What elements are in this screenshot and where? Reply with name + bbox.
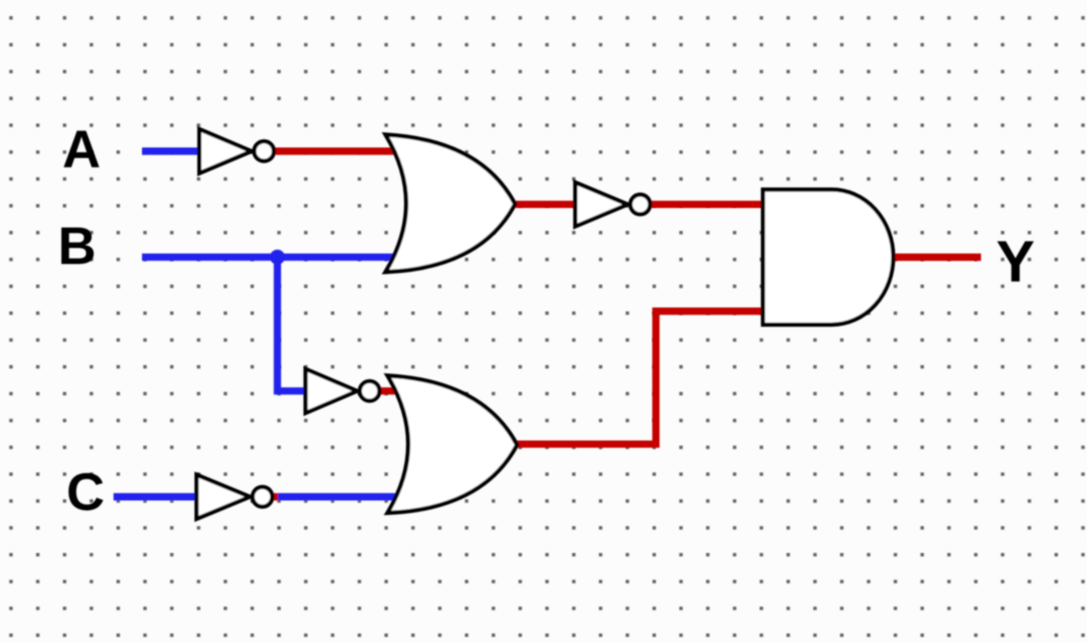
wire: NOT1 output to OR1 (red, high) [270,148,399,155]
svg-text:B: B [58,217,96,276]
and-gate U1 [763,190,893,325]
inverter NOT2 (after OR1) [575,182,650,226]
wire: input B (blue) to OR1 [142,253,399,260]
inverter NOT1 (input A) [199,129,273,173]
wire: NOT2 output to AND top input (red) [636,201,766,208]
or-gate OR2 (bottom) [388,376,518,513]
wire: B branch down to NOT3 (blue) [277,257,310,391]
inverter NOT3 (B branch) [306,369,380,413]
svg-text:Y: Y [996,229,1035,294]
wire: input C (blue) [114,493,208,500]
or-gate OR1 (top) [386,135,516,272]
wire: input A (blue, low) [142,148,210,155]
junction on B wire [270,250,285,265]
wire: NOT4 to OR2 bottom input (blue) [278,493,399,500]
wire: NOT3 output nub to OR2 (red) [374,387,399,394]
inverter NOT4 (input C) [197,475,273,519]
wire: NOT4 output red nub [266,493,279,500]
svg-text:C: C [66,463,104,522]
wire: AND output to Y (red) [892,254,981,261]
svg-text:A: A [62,121,100,180]
wire: OR2 output up to AND bottom input (red) [514,311,766,444]
wire: OR1 output to NOT2 (red) [513,201,580,208]
